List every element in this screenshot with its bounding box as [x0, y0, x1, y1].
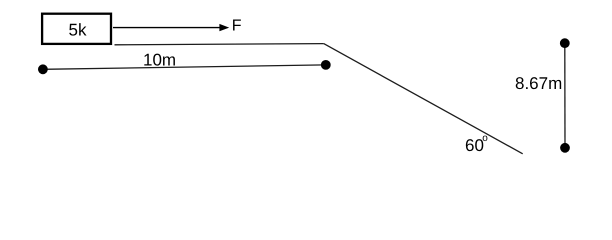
force arrow F	[113, 17, 242, 34]
svg-text:60: 60	[465, 136, 484, 155]
angle label 60 degrees	[465, 133, 488, 155]
incline line (60 degree slope)	[324, 44, 523, 154]
svg-text:8.67m: 8.67m	[515, 74, 562, 93]
8.67m measurement line	[515, 38, 570, 152]
svg-text:10m: 10m	[143, 51, 176, 70]
svg-text:F: F	[232, 17, 242, 34]
10m measurement line	[38, 51, 331, 75]
ground line (horizontal surface)	[115, 44, 324, 45]
svg-text:o: o	[482, 133, 488, 144]
block 5k (box)	[42, 14, 111, 44]
svg-text:5k: 5k	[69, 20, 87, 39]
